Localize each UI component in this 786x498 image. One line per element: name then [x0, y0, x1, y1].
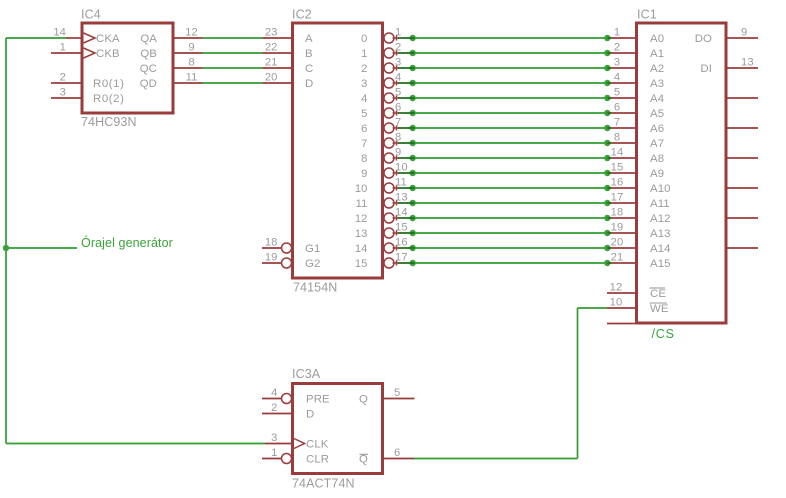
svg-text:3: 3: [361, 78, 367, 90]
svg-text:A13: A13: [650, 228, 671, 240]
svg-text:74ACT74N: 74ACT74N: [292, 477, 355, 491]
svg-text:CKA: CKA: [96, 33, 120, 45]
svg-text:9: 9: [395, 147, 401, 159]
svg-text:A: A: [305, 33, 313, 45]
svg-text:9: 9: [361, 168, 367, 180]
svg-text:A11: A11: [650, 198, 670, 210]
svg-text:1: 1: [60, 42, 66, 54]
svg-text:17: 17: [395, 252, 408, 264]
svg-text:A3: A3: [650, 78, 664, 90]
svg-text:13: 13: [355, 228, 368, 240]
svg-text:A4: A4: [650, 93, 664, 105]
svg-text:7: 7: [614, 117, 620, 129]
svg-text:19: 19: [611, 222, 624, 234]
svg-text:R0(1): R0(1): [93, 78, 124, 90]
svg-text:8: 8: [395, 132, 401, 144]
svg-text:1: 1: [614, 27, 620, 39]
svg-text:12: 12: [610, 282, 623, 294]
svg-text:14: 14: [355, 243, 368, 255]
svg-text:QA: QA: [140, 33, 157, 45]
svg-text:10: 10: [355, 183, 368, 195]
svg-text:8: 8: [614, 132, 620, 144]
svg-text:/CS: /CS: [652, 327, 675, 341]
svg-text:7: 7: [361, 138, 367, 150]
svg-text:74HC93N: 74HC93N: [81, 115, 137, 129]
svg-text:7: 7: [395, 117, 401, 129]
svg-text:IC1: IC1: [637, 8, 657, 22]
svg-text:12: 12: [355, 213, 368, 225]
svg-text:A10: A10: [650, 183, 671, 195]
svg-text:23: 23: [265, 27, 278, 39]
svg-text:20: 20: [265, 72, 278, 84]
svg-text:CKB: CKB: [96, 48, 120, 60]
svg-text:QC: QC: [140, 63, 157, 75]
svg-text:14: 14: [395, 207, 408, 219]
svg-text:D: D: [305, 78, 313, 90]
svg-text:3: 3: [614, 57, 620, 69]
svg-text:18: 18: [611, 207, 624, 219]
svg-text:G1: G1: [305, 243, 320, 255]
svg-text:2: 2: [361, 63, 367, 75]
svg-text:21: 21: [265, 57, 278, 69]
svg-text:9: 9: [188, 42, 194, 54]
svg-text:PRE: PRE: [306, 394, 330, 406]
svg-text:A5: A5: [650, 108, 664, 120]
svg-text:22: 22: [265, 42, 278, 54]
svg-text:13: 13: [741, 57, 754, 69]
svg-text:13: 13: [395, 192, 408, 204]
svg-text:11: 11: [186, 72, 198, 84]
svg-text:3: 3: [60, 87, 66, 99]
svg-text:QB: QB: [140, 48, 157, 60]
svg-text:A8: A8: [650, 153, 664, 165]
svg-text:A1: A1: [650, 48, 664, 60]
svg-text:18: 18: [265, 237, 278, 249]
svg-text:0: 0: [361, 33, 367, 45]
svg-text:IC3A: IC3A: [292, 367, 321, 381]
svg-text:Q: Q: [359, 394, 368, 406]
svg-text:14: 14: [611, 147, 624, 159]
svg-text:Órajel generátor: Órajel generátor: [81, 235, 173, 250]
svg-text:4: 4: [271, 387, 277, 399]
svg-text:15: 15: [611, 162, 624, 174]
svg-text:5: 5: [614, 87, 620, 99]
svg-text:74154N: 74154N: [293, 281, 337, 295]
svg-text:9: 9: [741, 27, 747, 39]
svg-text:A14: A14: [650, 243, 671, 255]
svg-text:2: 2: [614, 42, 620, 54]
svg-text:A2: A2: [650, 63, 664, 75]
svg-text:6: 6: [395, 102, 401, 114]
svg-text:21: 21: [611, 252, 624, 264]
svg-text:11: 11: [395, 177, 407, 189]
svg-text:B: B: [305, 48, 313, 60]
svg-text:15: 15: [395, 222, 408, 234]
svg-text:4: 4: [614, 72, 620, 84]
svg-text:4: 4: [395, 72, 401, 84]
svg-text:6: 6: [614, 102, 620, 114]
svg-text:A15: A15: [650, 258, 671, 270]
svg-text:R0(2): R0(2): [93, 93, 124, 105]
svg-text:CE: CE: [650, 288, 666, 300]
svg-text:16: 16: [395, 237, 408, 249]
svg-text:CLK: CLK: [306, 439, 329, 451]
svg-text:5: 5: [361, 108, 367, 120]
svg-text:10: 10: [395, 162, 408, 174]
svg-text:8: 8: [361, 153, 367, 165]
svg-text:A7: A7: [650, 138, 664, 150]
svg-text:IC2: IC2: [292, 8, 312, 22]
svg-text:DI: DI: [700, 63, 712, 75]
svg-text:2: 2: [395, 42, 401, 54]
svg-text:20: 20: [611, 237, 624, 249]
svg-text:C: C: [305, 63, 313, 75]
svg-text:6: 6: [394, 447, 400, 459]
svg-text:CLR: CLR: [306, 454, 329, 466]
svg-text:WE: WE: [650, 303, 669, 315]
svg-text:10: 10: [610, 297, 623, 309]
svg-text:IC4: IC4: [81, 8, 101, 22]
svg-text:12: 12: [185, 27, 198, 39]
svg-text:14: 14: [53, 27, 66, 39]
svg-text:3: 3: [271, 432, 277, 444]
svg-text:D: D: [306, 409, 314, 421]
svg-text:A9: A9: [650, 168, 664, 180]
svg-text:A12: A12: [650, 213, 671, 225]
svg-text:11: 11: [356, 198, 368, 210]
svg-text:QD: QD: [140, 78, 157, 90]
svg-text:1: 1: [271, 447, 277, 459]
svg-text:2: 2: [271, 402, 277, 414]
svg-text:4: 4: [361, 93, 367, 105]
svg-text:A6: A6: [650, 123, 664, 135]
svg-text:3: 3: [395, 57, 401, 69]
svg-text:G2: G2: [305, 258, 320, 270]
svg-text:17: 17: [611, 192, 624, 204]
svg-text:6: 6: [361, 123, 367, 135]
svg-text:5: 5: [394, 387, 400, 399]
svg-text:DO: DO: [695, 33, 712, 45]
svg-text:2: 2: [60, 72, 66, 84]
svg-text:1: 1: [361, 48, 367, 60]
svg-text:5: 5: [395, 87, 401, 99]
svg-text:A0: A0: [650, 33, 664, 45]
svg-text:16: 16: [611, 177, 624, 189]
svg-text:1: 1: [395, 27, 401, 39]
svg-text:15: 15: [355, 258, 368, 270]
svg-text:Q: Q: [359, 454, 368, 466]
svg-text:19: 19: [265, 252, 278, 264]
svg-text:8: 8: [188, 57, 194, 69]
